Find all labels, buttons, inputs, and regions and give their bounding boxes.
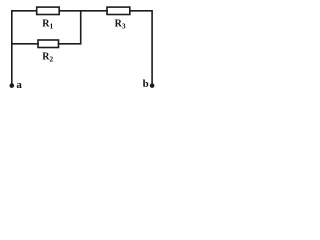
resistor R1 (37, 7, 60, 14)
svg-text:R3: R3 (115, 18, 126, 30)
wire R2 left branch (12, 43, 38, 45)
wire between R1 and R3 (59, 10, 107, 12)
resistor R2 (38, 40, 59, 48)
svg-text:R1: R1 (42, 18, 53, 30)
wire top-left: left vertical from node a up to top wire (12, 11, 37, 85)
svg-text:b: b (143, 78, 149, 90)
wire R2 right branch up to top wire junction (59, 11, 81, 44)
node a terminal dot (10, 83, 15, 88)
svg-text:a: a (16, 79, 22, 91)
node b terminal dot (150, 83, 155, 88)
wire top-right: from R3 right, down to node b (130, 11, 152, 85)
svg-text:R2: R2 (42, 52, 53, 64)
resistor R3 (107, 7, 130, 14)
